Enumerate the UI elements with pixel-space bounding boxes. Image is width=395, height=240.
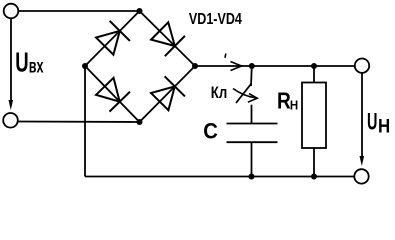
node resistor-top dot <box>311 63 317 69</box>
terminal input top <box>4 4 19 19</box>
current tick label <box>224 54 227 58</box>
bridge edge L-B <box>85 66 140 122</box>
svg-text:Кл: Кл <box>211 84 227 102</box>
capacitor C top plate <box>227 123 278 125</box>
bridge edge L-T <box>85 11 140 66</box>
wire top rail <box>195 65 355 67</box>
node capacitor-bottom dot <box>249 174 255 180</box>
wire bottom input <box>18 121 140 124</box>
wire bridge left vertical <box>84 66 86 177</box>
wire top input <box>18 10 140 12</box>
wire Un arrow line <box>361 73 363 159</box>
wire Uvx arrow line <box>10 18 12 103</box>
bridge edge T-R <box>140 11 196 66</box>
svg-text:Н: Н <box>290 97 298 112</box>
wire capacitor bottom <box>251 142 253 176</box>
svg-text:R: R <box>277 87 291 113</box>
bridge edge B-R <box>140 66 196 122</box>
wire switch upper stub <box>250 66 253 86</box>
node T dot <box>137 8 143 14</box>
diode VD lower-left <box>95 76 130 111</box>
svg-text:вх: вх <box>29 56 44 77</box>
svg-text:U: U <box>367 109 377 136</box>
terminal output bottom <box>354 169 368 183</box>
svg-text:Н: Н <box>378 117 390 138</box>
switch blade <box>236 84 251 103</box>
node resistor-bottom dot <box>311 174 317 180</box>
terminal input bottom <box>3 113 18 128</box>
svg-text:VD1-VD4: VD1-VD4 <box>189 11 242 28</box>
terminal output top <box>355 58 369 72</box>
node L dot <box>82 63 88 69</box>
Un arrowhead <box>360 156 365 166</box>
wire switch lower stub <box>251 105 253 124</box>
switch closing arc arrow <box>233 89 257 98</box>
resistor Rn body <box>302 83 326 149</box>
node R dot <box>192 63 198 69</box>
diode VD upper-left <box>95 21 130 56</box>
diode VD upper-right <box>150 21 185 56</box>
current arrow <box>231 62 242 71</box>
wire bottom rail <box>85 176 355 178</box>
capacitor C bottom plate <box>227 141 278 143</box>
Uvx arrowhead <box>9 100 14 110</box>
node B dot <box>137 119 143 125</box>
wire resistor top stub <box>313 66 315 83</box>
diode VD lower-right <box>150 76 185 111</box>
svg-text:C: C <box>203 119 218 144</box>
node switch-top dot <box>249 63 255 69</box>
svg-text:U: U <box>15 46 28 77</box>
wire resistor bottom stub <box>313 148 315 177</box>
